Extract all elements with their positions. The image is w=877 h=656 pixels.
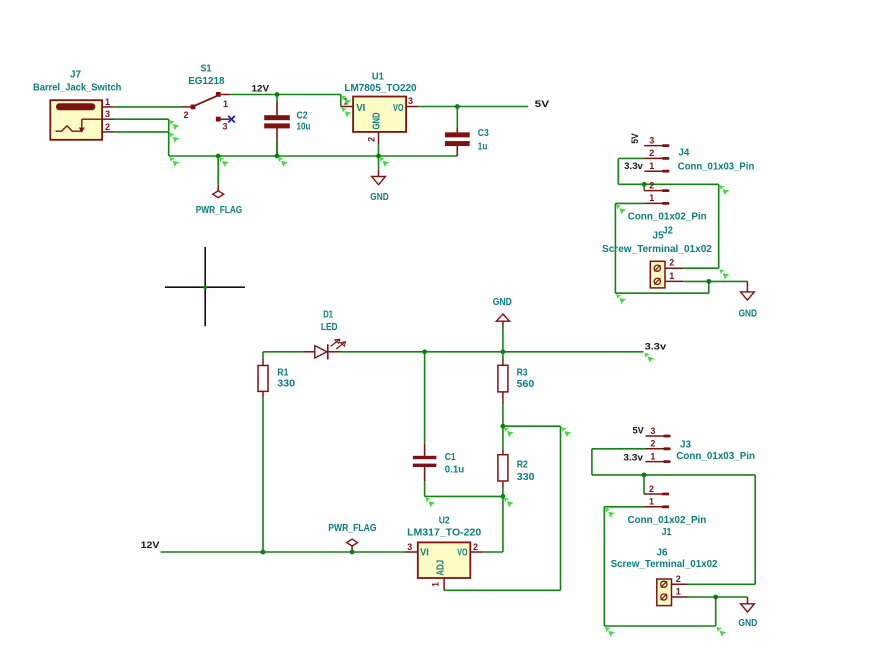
capacitor C2 xyxy=(264,115,290,120)
wire C1 top from rail xyxy=(424,352,426,443)
wire left loop down bottom group xyxy=(603,507,605,626)
wire bottom loop xyxy=(604,625,715,627)
svg-text:PWR_FLAG: PWR_FLAG xyxy=(196,205,243,216)
svg-text:10u: 10u xyxy=(297,122,311,133)
svg-text:2: 2 xyxy=(183,110,188,120)
svg-text:3: 3 xyxy=(649,135,654,145)
connector J3 pin 1 xyxy=(645,461,663,463)
wire C1 bottom corner to R2 junction xyxy=(425,495,503,497)
junction PWR_FLAG bottom xyxy=(350,550,355,555)
junction R1 on 12V wire xyxy=(261,550,266,555)
svg-text:3: 3 xyxy=(222,122,227,132)
wire 3.3V rail bottom circuit xyxy=(263,351,303,353)
wire J1 pin1 left xyxy=(604,506,644,508)
wire J7 pin3 down segment xyxy=(168,119,170,132)
erc arrow at C2 junction xyxy=(278,157,288,167)
regulator U1 pin 1 xyxy=(341,106,353,108)
wire 3.3V distribution rail top group xyxy=(618,183,718,185)
svg-text:1: 1 xyxy=(223,99,228,109)
connector J7 pin 1 xyxy=(102,106,113,108)
wire R1 down to 12V wire xyxy=(262,398,264,552)
svg-text:Conn_01x03_Pin: Conn_01x03_Pin xyxy=(676,451,755,462)
svg-text:J1: J1 xyxy=(662,527,672,538)
regulator U2 pin 1 ADJ xyxy=(443,578,445,590)
resistor R1 bottom stub xyxy=(262,391,264,397)
svg-text:U2: U2 xyxy=(439,516,450,527)
regulator U2 pin 2 xyxy=(470,551,483,553)
svg-text:R1: R1 xyxy=(277,368,288,379)
screw terminal J6 xyxy=(657,579,672,606)
ground rail wire xyxy=(169,155,458,157)
svg-text:3.3v: 3.3v xyxy=(623,452,643,463)
resistor R2 top stub xyxy=(502,449,504,455)
svg-text:D1: D1 xyxy=(323,310,333,321)
capacitor C1 xyxy=(413,456,437,459)
erc arrow at U1 input corner xyxy=(342,95,352,105)
svg-text:3: 3 xyxy=(408,96,413,106)
svg-text:5V: 5V xyxy=(633,426,645,437)
svg-text:LM7805_TO220: LM7805_TO220 xyxy=(344,83,417,94)
erc arrow at top group rail corner xyxy=(720,185,730,195)
connector J7 pin 3 xyxy=(102,118,113,120)
svg-text:C1: C1 xyxy=(445,452,456,463)
svg-text:R2: R2 xyxy=(517,459,528,470)
erc arrow at 3.3v rail end xyxy=(644,353,654,363)
connector J2 pin 2 xyxy=(644,190,662,192)
wire C2 top stub xyxy=(276,95,278,102)
wire GND symbol down to rail xyxy=(502,328,504,352)
wire to PWR_FLAG xyxy=(217,156,219,185)
ground symbol right top xyxy=(746,281,748,292)
wire junction down to R2 xyxy=(502,426,504,449)
svg-text:1: 1 xyxy=(650,451,655,461)
wire down left loop xyxy=(591,449,593,475)
ground symbol above rail xyxy=(496,314,509,321)
svg-text:Screw_Terminal_01x02: Screw_Terminal_01x02 xyxy=(611,559,718,570)
wire rail corner down to R1 xyxy=(262,352,264,359)
connector J3 pin 2 xyxy=(645,448,663,450)
svg-text:VO: VO xyxy=(393,103,404,114)
wire up to J5 pin1 xyxy=(708,281,710,293)
connector J7 body xyxy=(50,100,102,140)
junction above J2 pin2 xyxy=(642,182,647,187)
sheet origin crosshair xyxy=(165,286,245,288)
wire left loop bottom xyxy=(615,292,708,294)
svg-text:2: 2 xyxy=(649,148,654,158)
wire 12V rail xyxy=(230,94,341,96)
wire J7 pin2 right segment xyxy=(114,131,169,133)
svg-text:1: 1 xyxy=(669,271,674,281)
wire J5 pin2 right xyxy=(683,267,719,269)
svg-text:12V: 12V xyxy=(252,84,270,95)
connector J7 pin 2 xyxy=(102,131,113,133)
regulator U1 pin 2 xyxy=(378,132,380,145)
wire up to J6 pin1 xyxy=(715,597,717,626)
svg-text:ADJ: ADJ xyxy=(436,560,447,576)
erc arrow at J1 pin1 corner xyxy=(605,508,615,518)
wire J6 pin1 to GND xyxy=(688,596,748,598)
svg-text:3.3v: 3.3v xyxy=(645,342,667,353)
svg-text:VI: VI xyxy=(356,103,365,114)
erc arrow at U1 ground junction xyxy=(379,157,389,167)
erc arrow at J2 pin1 corner xyxy=(616,204,626,214)
svg-text:J5: J5 xyxy=(652,231,664,242)
switch S1 pin 2 contact xyxy=(191,105,196,110)
svg-text:1: 1 xyxy=(649,193,654,203)
resistor R1 top stub xyxy=(262,359,264,366)
wire 12V to U2 xyxy=(161,551,406,553)
erc arrow at left loop bottom corner xyxy=(616,294,626,304)
svg-text:2: 2 xyxy=(105,122,110,132)
svg-text:J4: J4 xyxy=(678,148,689,159)
resistor R3 top stub xyxy=(502,359,504,366)
wire left loop down xyxy=(614,203,616,293)
svg-text:Conn_01x02_Pin: Conn_01x02_Pin xyxy=(628,515,707,526)
wire down to 3.3V rail xyxy=(617,158,619,184)
wire LED cathode to rail right xyxy=(340,351,643,353)
svg-text:12V: 12V xyxy=(141,540,161,551)
connector J4 pin 1 xyxy=(644,170,662,172)
svg-text:2: 2 xyxy=(473,542,478,552)
svg-text:2: 2 xyxy=(649,484,654,494)
wire right loop vertical bottom group xyxy=(754,475,756,584)
resistor R2 bottom stub xyxy=(502,481,504,487)
svg-text:VO: VO xyxy=(457,548,467,559)
capacitor C3 xyxy=(445,132,470,137)
svg-text:2: 2 xyxy=(650,439,655,449)
connector J4 pin 2 xyxy=(644,157,662,159)
svg-text:Conn_01x03_Pin: Conn_01x03_Pin xyxy=(678,161,755,172)
svg-text:5V: 5V xyxy=(535,99,550,110)
wire C1 bottom xyxy=(424,481,426,496)
erc arrow at J5 pin2 corner xyxy=(720,269,730,279)
wire 3.3V distribution rail bottom group xyxy=(592,474,755,476)
svg-text:3: 3 xyxy=(105,109,110,119)
regulator U1 pin 3 xyxy=(406,106,418,108)
svg-text:2: 2 xyxy=(366,137,376,142)
wire C3 top stub xyxy=(456,107,458,129)
svg-text:VI: VI xyxy=(420,548,429,559)
wire R3 to junction xyxy=(502,404,504,426)
wire J5 pin1 to GND xyxy=(683,280,747,282)
junction at C2 bottom xyxy=(275,154,280,159)
wire to GND symbol xyxy=(378,156,380,170)
svg-text:2: 2 xyxy=(676,574,681,584)
svg-text:EG1218: EG1218 xyxy=(188,76,225,87)
junction at C1 top xyxy=(422,349,427,354)
wire GND junction down through R3 xyxy=(502,352,504,359)
no-connect cross on S1 pin 3 xyxy=(228,116,235,123)
svg-text:1: 1 xyxy=(676,587,681,597)
wire R2 bottom to junction xyxy=(502,487,504,496)
diode D1 LED xyxy=(303,351,314,353)
junction on J6 pin1 wire xyxy=(713,595,718,600)
wire J2 pin1 left xyxy=(615,202,644,204)
wire down to ground rail xyxy=(168,132,170,156)
svg-text:GND: GND xyxy=(370,192,388,203)
erc arrow at PWR_FLAG junction xyxy=(219,157,229,167)
wire J7 pin3 right segment xyxy=(114,118,169,120)
switch S1 pin 1 contact xyxy=(216,92,221,97)
erc arrow at bottom loop left corner xyxy=(605,627,615,637)
wire U1 pin2 to rail xyxy=(378,145,380,156)
svg-text:R3: R3 xyxy=(517,368,528,379)
wire right loop vertical xyxy=(718,184,720,268)
svg-text:U1: U1 xyxy=(372,71,384,82)
svg-text:0.1u: 0.1u xyxy=(445,464,465,475)
wire VO net vertical xyxy=(502,496,504,552)
svg-text:GND: GND xyxy=(493,297,512,308)
erc arrow at R2 bottom junction xyxy=(504,497,514,507)
svg-text:Barrel_Jack_Switch: Barrel_Jack_Switch xyxy=(33,83,121,94)
wire ADJ feedback vertical xyxy=(560,426,562,590)
wire J6 pin2 right xyxy=(688,583,755,585)
svg-text:C3: C3 xyxy=(478,128,489,139)
wire junction to J2 pin2 xyxy=(643,184,645,190)
svg-text:LM317_TO-220: LM317_TO-220 xyxy=(407,528,482,539)
connector J3 pin 3 xyxy=(645,435,663,437)
power flag PWR_FLAG top xyxy=(217,185,219,191)
svg-text:3.3v: 3.3v xyxy=(624,161,643,172)
svg-text:GND: GND xyxy=(739,309,757,320)
svg-text:560: 560 xyxy=(517,379,535,390)
wire J7 pin1 to S1 pin2 xyxy=(114,106,182,108)
svg-text:330: 330 xyxy=(517,472,535,483)
svg-text:GND: GND xyxy=(372,113,383,130)
connector J1 pin 2 xyxy=(644,493,662,495)
svg-text:J7: J7 xyxy=(70,70,81,81)
junction at C3 top xyxy=(455,104,460,109)
junction between R3 and R2 xyxy=(501,424,506,429)
erc arrow at J7 pin2 corner xyxy=(170,133,180,143)
regulator U1 body xyxy=(353,97,406,132)
svg-text:1: 1 xyxy=(105,97,110,107)
junction GND R3 on rail xyxy=(501,349,506,354)
wire U2 VO right xyxy=(483,551,503,553)
junction above J1 pin2 xyxy=(642,473,647,478)
erc arrow at bottom loop right corner xyxy=(717,627,727,637)
erc arrow at rail corner xyxy=(170,157,180,167)
resistor R1 xyxy=(258,366,268,392)
switch S1 lever xyxy=(194,96,216,106)
junction at PWR_FLAG top xyxy=(216,154,221,159)
wire 12V into U1 pin 1 xyxy=(340,95,342,107)
screw terminal J5 xyxy=(650,261,665,288)
erc arrow at ADJ feedback corner xyxy=(561,427,571,437)
regulator U2 body xyxy=(418,542,471,578)
resistor R3 xyxy=(498,365,508,392)
resistor R2 xyxy=(498,455,508,481)
wire J4 pin2 left xyxy=(618,157,644,159)
svg-text:330: 330 xyxy=(277,378,295,389)
svg-text:GND: GND xyxy=(738,618,757,629)
svg-text:J3: J3 xyxy=(680,440,691,451)
connector J2 pin 1 xyxy=(644,202,662,204)
resistor R3 bottom stub xyxy=(502,392,504,405)
svg-text:C2: C2 xyxy=(297,110,308,121)
svg-text:3: 3 xyxy=(650,426,655,436)
wire junction to ADJ feedback right xyxy=(503,425,561,427)
ground symbol under U1 xyxy=(378,170,380,177)
svg-text:2: 2 xyxy=(649,180,654,190)
switch S1 pin 3 contact xyxy=(216,117,221,122)
svg-text:1: 1 xyxy=(649,497,654,507)
svg-text:LED: LED xyxy=(321,322,338,333)
junction at C2 top xyxy=(275,92,280,97)
svg-text:S1: S1 xyxy=(201,63,212,74)
erc arrow at J7 pin3 corner xyxy=(170,120,180,130)
wire C2 bottom stub xyxy=(276,139,278,156)
wire 5V xyxy=(418,106,528,108)
erc arrow at R3 R2 junction xyxy=(504,427,514,437)
wire J3 pin2 left xyxy=(592,448,646,450)
wire junction to J1 pin2 xyxy=(643,475,645,494)
erc arrow at C1 bottom corner xyxy=(425,497,435,507)
svg-text:Conn_01x02_Pin: Conn_01x02_Pin xyxy=(628,211,707,222)
svg-text:1: 1 xyxy=(430,582,440,587)
junction R2 bottom xyxy=(501,494,506,499)
svg-text:5V: 5V xyxy=(630,133,641,144)
svg-text:J6: J6 xyxy=(657,548,668,559)
ground symbol bottom right xyxy=(747,597,749,604)
svg-text:J2: J2 xyxy=(663,226,674,237)
svg-text:PWR_FLAG: PWR_FLAG xyxy=(328,523,376,534)
regulator U2 pin 3 xyxy=(405,551,418,553)
svg-text:1: 1 xyxy=(649,161,654,171)
connector J1 pin 1 xyxy=(644,506,662,508)
svg-text:2: 2 xyxy=(669,258,674,268)
svg-text:1u: 1u xyxy=(478,142,488,153)
connector J4 pin 3 xyxy=(644,145,662,147)
svg-text:Screw_Terminal_01x02: Screw_Terminal_01x02 xyxy=(602,244,712,255)
wire U2 ADJ to feedback xyxy=(444,589,560,591)
junction on J5 pin1 wire xyxy=(706,279,711,284)
svg-text:3: 3 xyxy=(407,542,412,552)
junction at U1 ground xyxy=(376,154,381,159)
